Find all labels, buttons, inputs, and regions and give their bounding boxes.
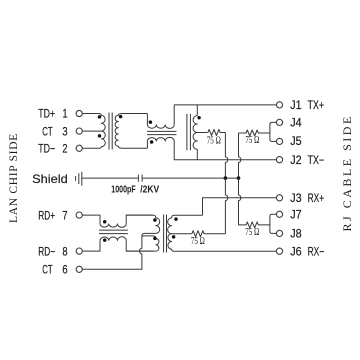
T2 phase dot	[197, 116, 200, 119]
svg-text:75 Ω: 75 Ω	[245, 135, 259, 146]
common-mode choke L1 lower winding	[147, 137, 174, 148]
T1 secondary phase dot	[119, 115, 123, 119]
svg-text:75 Ω: 75 Ω	[191, 236, 205, 247]
wire CT pin3 to T1 primary center tap	[82, 130, 101, 132]
svg-text:/2KV: /2KV	[140, 184, 159, 195]
transformer T3 primary lower winding	[126, 236, 159, 251]
svg-text:TX−: TX−	[308, 153, 325, 167]
node J4 terminal	[276, 119, 282, 125]
svg-text:RD−: RD−	[38, 244, 55, 258]
resistor R2 75 ohm (J4/J5 termination)	[239, 130, 270, 178]
svg-text:3: 3	[62, 124, 67, 138]
choke L1 core	[147, 131, 176, 134]
wire R1 to shield bus (vertical, hops over J2 wire)	[225, 133, 227, 179]
svg-text:2: 2	[62, 142, 67, 156]
svg-text:CT: CT	[42, 263, 53, 277]
svg-text:RX−: RX−	[308, 244, 325, 258]
svg-text:J7: J7	[290, 208, 302, 222]
transformer T1 core	[109, 113, 112, 150]
wire RD+ pin 7 into choke L2	[82, 215, 100, 224]
junction dot shield bus / R1 branch	[224, 176, 228, 180]
T3 primary lower phase dot	[153, 237, 157, 241]
svg-text:6: 6	[62, 263, 67, 277]
svg-text:7: 7	[62, 208, 67, 222]
wire T2 center tap to resistor R1	[197, 132, 207, 134]
svg-text:TD−: TD−	[38, 142, 55, 156]
svg-text:J3: J3	[290, 191, 302, 205]
wire T3 secondary center tap to resistor R3	[172, 233, 192, 235]
choke L1 lower phase dot	[150, 140, 154, 144]
wire capacitor to termination bus	[142, 177, 238, 179]
common-mode choke L2 lower winding	[100, 237, 126, 241]
common-mode choke L2 upper winding	[100, 224, 126, 227]
wire RD- pin 8 into choke L2	[82, 240, 100, 251]
node CT pin 6 terminal	[76, 266, 82, 272]
node J5 terminal	[276, 138, 282, 144]
junction dot shield bus / R2 branch	[237, 176, 241, 180]
node CT pin 3 terminal	[76, 128, 82, 134]
svg-text:RJ CABLE SIDE: RJ CABLE SIDE	[340, 117, 354, 232]
T3 primary upper phase dot	[153, 218, 157, 222]
choke L2 upper phase dot	[103, 220, 107, 224]
svg-text:J6: J6	[290, 244, 302, 258]
wire choke L2 lower to T3 primary	[126, 240, 153, 251]
wire choke L1 upper to J1 TX+	[174, 105, 276, 125]
svg-text:8: 8	[62, 244, 67, 258]
transformer T3 secondary winding (center tapped)	[168, 215, 203, 251]
resistor R1 75 ohm (TX center tap termination)	[208, 130, 226, 136]
svg-text:LAN CHIP SIDE: LAN CHIP SIDE	[8, 134, 20, 223]
svg-text:TD+: TD+	[38, 107, 55, 121]
transformer T3 core	[164, 215, 167, 253]
transformer T1 secondary winding	[115, 114, 147, 149]
choke L1 upper phase dot	[149, 120, 153, 124]
node J6 terminal	[276, 248, 282, 254]
node J1 terminal	[276, 102, 282, 108]
wire choke L2 upper to T3 primary	[126, 215, 153, 224]
svg-text:J4: J4	[290, 116, 302, 130]
node J3 terminal	[276, 195, 282, 201]
transformer T1 primary winding (center-tapped, pins 1-3-2)	[82, 114, 105, 149]
wire shield to capacitor	[82, 177, 139, 179]
node RD- pin 8 terminal	[76, 248, 82, 254]
wire T3 secondary top to J3 RX+	[203, 198, 277, 216]
node J7 terminal	[276, 211, 282, 217]
T1 primary phase dot (lower half)	[98, 134, 102, 138]
svg-text:Shield: Shield	[32, 172, 68, 186]
resistor R4 75 ohm (J7/J8 termination)	[239, 178, 270, 228]
wire bracket joining J4 and J5	[270, 122, 277, 141]
choke L2 core	[99, 230, 128, 234]
resistor R3 75 ohm (RX center tap termination)	[192, 231, 226, 237]
autotransformer T2 winding (TX cable side)	[193, 105, 197, 160]
wire T3 primary center tap down to CT pin 6 (hops over RD- wire)	[82, 236, 142, 269]
T3 secondary phase dot (lower)	[172, 235, 176, 239]
wire choke L1 lower to J2 TX-	[174, 141, 276, 160]
wire T3 secondary bottom to J6 RX-	[174, 250, 276, 252]
svg-text:75 Ω: 75 Ω	[245, 227, 259, 238]
svg-text:CT: CT	[42, 124, 53, 138]
node TD+ pin 1 terminal	[76, 110, 82, 116]
svg-text:75 Ω: 75 Ω	[207, 136, 221, 147]
svg-text:J2: J2	[290, 153, 302, 167]
svg-text:RD+: RD+	[38, 208, 55, 222]
T1 primary phase dot (upper half)	[98, 115, 102, 119]
svg-text:1000pF: 1000pF	[111, 184, 135, 195]
transformer T3 primary upper winding	[126, 215, 160, 236]
capacitor C1 plates	[138, 175, 142, 182]
node TD- pin 2 terminal	[76, 145, 82, 151]
svg-text:J1: J1	[290, 98, 302, 112]
svg-text:1: 1	[62, 107, 67, 121]
svg-text:RX+: RX+	[308, 191, 325, 205]
shield terminal plates	[76, 172, 82, 186]
svg-text:J5: J5	[290, 134, 302, 148]
node RD+ pin 7 terminal	[76, 212, 82, 218]
T3 secondary phase dot (upper)	[174, 217, 178, 221]
wire bracket joining J7 and J8	[270, 214, 277, 233]
svg-text:J8: J8	[290, 227, 302, 241]
choke L2 lower phase dot	[103, 238, 107, 242]
wire R3 to shield bus (vertical, hops over J3 wire)	[225, 178, 227, 234]
common-mode choke L1 upper winding	[147, 114, 174, 129]
node J2 terminal	[276, 157, 282, 163]
node J8 terminal	[276, 230, 282, 236]
transformer T2 core	[187, 114, 191, 150]
svg-text:TX+: TX+	[308, 98, 325, 112]
